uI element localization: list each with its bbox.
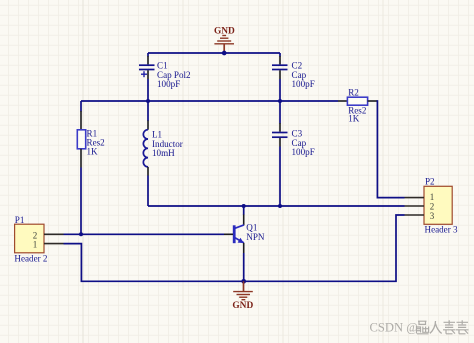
value 1K R2 <box>348 113 360 123</box>
capacitor C3 symbol <box>272 101 288 147</box>
comment Res2 R2 <box>348 106 367 116</box>
comment Header 3 <box>425 225 459 235</box>
designator C2 <box>292 61 303 71</box>
junction middle wire at collector <box>242 204 246 208</box>
svg-text:1: 1 <box>33 240 38 250</box>
svg-text:100pF: 100pF <box>157 79 180 89</box>
value 10mH <box>152 148 175 158</box>
junction middle wire at C3 <box>278 204 282 208</box>
comment NPN <box>246 232 265 242</box>
svg-text:100pF: 100pF <box>292 79 315 89</box>
wire C1 bottom lead to bus <box>147 79 149 101</box>
value 100pF C1 <box>157 79 180 89</box>
wire top horizontal C1 to C2 <box>148 52 280 54</box>
wire C3 bottom lead down <box>279 147 281 207</box>
transistor Q1 <box>224 206 244 253</box>
pin number 2 of P1 <box>33 230 38 240</box>
wire C2 bottom lead to bus <box>279 79 281 101</box>
resistor R2 symbol <box>338 97 377 105</box>
wire middle horizontal L1/collector/C3 to P2 pin 2 <box>148 205 405 207</box>
resistor R1 symbol <box>77 101 85 168</box>
junction bus at C2/C3 column <box>278 99 282 103</box>
pin number 3 of P2 <box>430 211 435 221</box>
comment Cap C3 <box>292 138 307 148</box>
value 100pF C2 <box>292 79 315 89</box>
designator C3 <box>292 129 303 139</box>
svg-text:Q1: Q1 <box>246 223 257 233</box>
designator Q1 <box>246 223 257 233</box>
svg-text:P1: P1 <box>15 215 25 225</box>
watermark CJK glyph 4 <box>456 320 469 334</box>
designator P1 <box>15 215 25 225</box>
junction bottom bus at emitter/GND <box>241 279 246 284</box>
svg-text:1K: 1K <box>87 147 99 157</box>
junction on top wire at GND <box>222 51 227 56</box>
junction bus at C1/L1 column <box>146 99 150 103</box>
value 1K R1 <box>87 147 99 157</box>
comment Cap Pol2 <box>157 70 191 80</box>
connector P2 (Header 3) <box>405 186 453 224</box>
connector P1 (Header 2) <box>15 224 64 253</box>
svg-text:GND: GND <box>214 26 235 36</box>
pin number 1 of P1 <box>33 240 38 250</box>
wire L1 bottom lead down <box>147 176 149 207</box>
junction base wire at R1 column <box>79 232 83 236</box>
net label GND top <box>214 26 235 36</box>
comment Res2 R1 <box>87 137 106 147</box>
svg-text:P2: P2 <box>425 176 435 186</box>
watermark CJK glyph 2 <box>430 321 442 333</box>
svg-text:1K: 1K <box>348 113 360 123</box>
designator P2 <box>425 176 435 186</box>
wire emitter down to bottom bus <box>243 253 245 281</box>
wire P1 pin1 down and along bottom <box>64 215 405 281</box>
svg-text:3: 3 <box>430 211 435 221</box>
comment Inductor <box>152 139 183 149</box>
comment Header 2 <box>14 253 48 263</box>
svg-text:10mH: 10mH <box>152 148 175 158</box>
svg-text:Header 2: Header 2 <box>14 253 48 263</box>
svg-text:100pF: 100pF <box>292 147 315 157</box>
inductor L1 symbol <box>143 101 148 176</box>
svg-text:GND: GND <box>232 301 253 311</box>
designator C1 <box>157 61 168 71</box>
pin number 1 of P2 <box>430 192 435 202</box>
wire R1 bottom lead down <box>80 168 82 235</box>
net label GND bottom <box>232 301 253 311</box>
watermark CJK glyph 3 <box>443 320 456 334</box>
svg-text:R2: R2 <box>348 88 359 98</box>
svg-text:CSDN @: CSDN @ <box>370 321 418 335</box>
wire base from P1 junction <box>64 233 225 235</box>
capacitor C1 symbol <box>139 53 155 79</box>
comment Cap C2 <box>292 70 307 80</box>
svg-text:Header 3: Header 3 <box>425 225 459 235</box>
watermark CSDN <box>370 321 418 335</box>
designator L1 <box>152 130 162 140</box>
designator R1 <box>87 128 98 138</box>
power port GND bottom symbol <box>233 281 253 299</box>
power port GND top symbol <box>214 36 234 54</box>
wire main bus horizontal <box>81 100 338 102</box>
svg-text:NPN: NPN <box>246 232 265 242</box>
watermark CJK glyph 1 <box>417 321 429 334</box>
wire R2 to P2 pin 1 <box>377 101 405 198</box>
pin number 2 of P2 <box>430 202 435 212</box>
value 100pF C3 <box>292 147 315 157</box>
designator R2 <box>348 88 359 98</box>
capacitor C2 symbol <box>272 53 288 79</box>
